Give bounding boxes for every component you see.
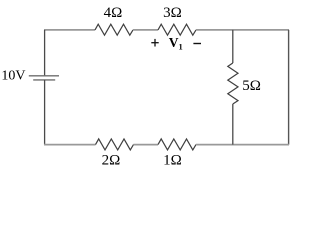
label 2 ohm	[102, 152, 121, 168]
wire right side	[288, 30, 290, 145]
svg-text:1Ω: 1Ω	[163, 152, 182, 168]
label plus sign of V1	[151, 39, 158, 47]
label 4 ohm	[104, 5, 123, 21]
svg-text:V1: V1	[169, 35, 183, 52]
voltage source 10V battery long positive plate	[29, 75, 59, 77]
resistor R1 4ohm	[95, 24, 133, 35]
svg-text:5Ω: 5Ω	[242, 78, 261, 94]
svg-text:3Ω: 3Ω	[163, 5, 182, 21]
label minus sign of V1	[193, 43, 201, 45]
svg-text:2Ω: 2Ω	[102, 152, 121, 168]
label 3 ohm	[163, 5, 182, 21]
resistor R4 2ohm	[96, 139, 134, 150]
wire middle branch lower	[232, 104, 234, 145]
wire bottom: between 2ohm and 1ohm	[134, 144, 159, 146]
wire top: 3ohm to top-right corner	[196, 29, 289, 31]
wire middle branch upper	[232, 30, 234, 63]
wire top: left corner to 4ohm	[44, 29, 95, 31]
wire left upper: top corner down to battery positive plate	[44, 30, 46, 76]
label 5 ohm	[242, 78, 261, 94]
resistor R3 5ohm vertical	[228, 63, 238, 104]
resistor R2 3ohm	[158, 24, 196, 35]
wire bottom: 1ohm to bottom-right corner	[196, 144, 289, 146]
wire top: between 4ohm and 3ohm	[133, 29, 158, 31]
svg-text:4Ω: 4Ω	[104, 5, 123, 21]
resistor R5 1ohm	[158, 139, 196, 150]
voltage source 10V battery short negative plate	[33, 79, 55, 81]
svg-text:10V: 10V	[1, 69, 25, 84]
label 10V	[1, 69, 25, 84]
wire bottom: left corner to 2ohm	[44, 144, 96, 146]
label V1	[169, 35, 183, 52]
wire left lower: battery negative plate down to bottom corner	[44, 80, 46, 145]
label 1 ohm	[163, 152, 182, 168]
